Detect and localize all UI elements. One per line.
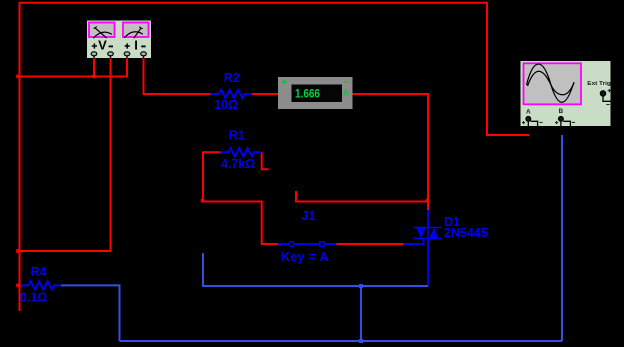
oscilloscope channel B minus: [572, 121, 575, 123]
svg-text:R1: R1: [229, 129, 245, 143]
svg-text:R2: R2: [224, 71, 240, 85]
V gauge tick: [94, 27, 97, 29]
wire blue R4 to bottom bus: [61, 285, 120, 341]
oscilloscope channel A plus: [522, 121, 525, 124]
instrument terminal 1: [91, 52, 97, 59]
oscilloscope waveform small: [528, 71, 575, 95]
svg-text:2N5445: 2N5445: [444, 226, 488, 240]
wire stem V- down and left to rail: [20, 58, 111, 251]
svg-text:4.7kΩ: 4.7kΩ: [221, 157, 255, 171]
svg-text:0.1Ω: 0.1Ω: [20, 291, 47, 305]
ammeter body: [278, 77, 353, 109]
instrument plus V: [92, 43, 97, 48]
triac D1 bottom bar: [414, 238, 442, 240]
svg-text:Key = A: Key = A: [281, 250, 329, 264]
triac D1 body vertical: [427, 228, 429, 239]
oscilloscope ext trig minus: [606, 104, 609, 106]
svg-text:R4: R4: [31, 265, 47, 279]
wire stem I- down to R2 level: [144, 58, 211, 94]
wire blue scope B riser: [561, 135, 563, 341]
oscilloscope channel A terminal: [526, 117, 538, 127]
oscilloscope screen: [524, 63, 582, 104]
ammeter minus mark: [345, 81, 349, 83]
oscilloscope channel B terminal: [559, 117, 571, 127]
wire top net from left rail to oscilloscope A: [20, 3, 530, 135]
svg-text:I: I: [134, 38, 138, 53]
oscilloscope channel B plus: [555, 121, 558, 124]
I gauge needle: [134, 28, 141, 38]
oscilloscope waveform big: [527, 64, 575, 102]
junction V+ stem: [92, 75, 96, 79]
svg-text:1.666: 1.666: [295, 87, 320, 101]
V gauge window: [89, 23, 115, 38]
instrument minus V: [109, 45, 113, 47]
svg-text:Ext Trig: Ext Trig: [587, 81, 611, 87]
junction blue bus bottom: [359, 339, 363, 343]
svg-text:V: V: [98, 38, 107, 53]
oscilloscope ext trig terminal: [600, 91, 611, 102]
instrument terminal 2: [108, 52, 114, 59]
ammeter plus mark: [282, 80, 286, 84]
junction R1 node: [201, 199, 205, 203]
I gauge arc: [124, 32, 143, 38]
resistor R1: [221, 148, 262, 156]
instrument terminal 4: [141, 52, 147, 59]
wire ammeter to D1 anode: [353, 94, 429, 210]
wire blue bottom bus: [120, 340, 563, 342]
wire stub to D1 gate net: [296, 191, 428, 202]
resistor R2: [211, 90, 253, 98]
triac D1 cathode pin down: [427, 239, 429, 287]
V gauge arc: [93, 32, 112, 38]
wire blue stub net to bottom-left bus: [203, 253, 428, 286]
wire switch to gate: [337, 243, 404, 245]
switch J1 right terminal: [320, 242, 324, 246]
switch J1 left terminal: [289, 242, 294, 247]
wire stem I+: [126, 58, 128, 78]
oscilloscope body: [521, 61, 611, 126]
oscilloscope ext trig plus: [608, 89, 611, 92]
svg-text:J1: J1: [301, 209, 315, 223]
wire R2 to ammeter: [252, 93, 278, 95]
triac D1 top pin: [427, 210, 429, 228]
triac D1 top bar: [414, 227, 442, 229]
triac D1 left triangle: [416, 228, 426, 239]
wire R1 left lead down: [203, 152, 221, 201]
ammeter display: [292, 85, 343, 103]
voltmeter-ammeter instrument body: [87, 21, 151, 59]
wire node to switch: [203, 202, 278, 245]
wire V+/I+ bus to rail: [20, 76, 128, 78]
wire blue middle vertical: [360, 286, 362, 341]
junction on rail at V bus: [16, 75, 20, 79]
I gauge window: [123, 23, 149, 38]
switch J1: [278, 243, 337, 245]
wire left vertical rail: [19, 2, 21, 311]
svg-text:A: A: [343, 88, 349, 98]
resistor R4: [21, 281, 62, 289]
junction rail R4: [16, 284, 20, 288]
svg-text:A: A: [526, 108, 531, 115]
junction rail V-: [16, 249, 20, 253]
junction blue bus top: [359, 284, 363, 288]
triac D1 right triangle: [429, 228, 438, 239]
instrument plus I: [125, 43, 130, 48]
triac D1 gate lead: [403, 239, 424, 245]
svg-text:10Ω: 10Ω: [214, 98, 238, 112]
wire R1 right stub: [262, 152, 269, 169]
instrument terminal 3: [124, 52, 130, 59]
oscilloscope channel A minus: [539, 121, 542, 123]
V gauge needle: [95, 28, 107, 38]
wire stem V+: [93, 58, 95, 77]
I gauge tick: [139, 27, 142, 29]
instrument minus I: [141, 45, 145, 47]
svg-text:B: B: [559, 108, 564, 115]
junction gate net at D1: [426, 199, 429, 202]
